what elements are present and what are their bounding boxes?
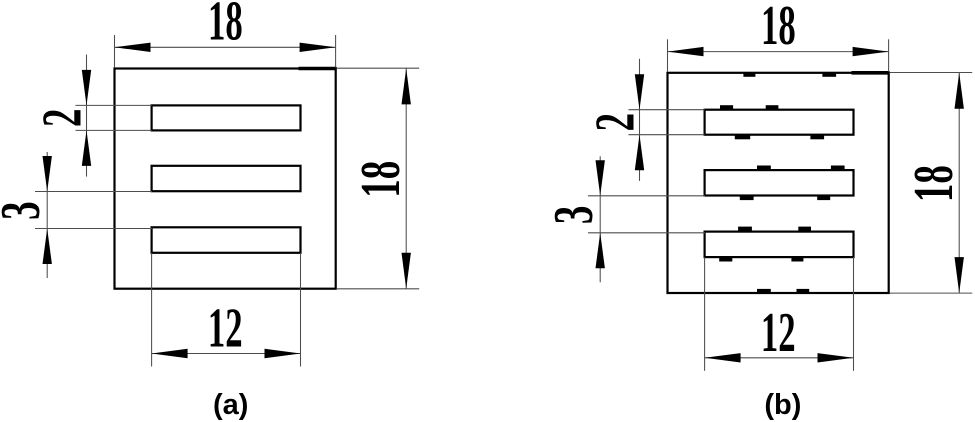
svg-text:12: 12 bbox=[208, 297, 243, 360]
svg-text:(a): (a) bbox=[213, 389, 248, 421]
svg-text:(b): (b) bbox=[764, 389, 801, 421]
svg-text:2: 2 bbox=[585, 113, 646, 131]
svg-text:12: 12 bbox=[761, 302, 796, 365]
svg-text:18: 18 bbox=[208, 0, 243, 53]
svg-text:18: 18 bbox=[351, 161, 412, 198]
svg-text:2: 2 bbox=[32, 109, 93, 127]
svg-text:3: 3 bbox=[0, 201, 52, 219]
svg-text:18: 18 bbox=[904, 165, 965, 202]
svg-text:18: 18 bbox=[761, 0, 796, 57]
svg-text:3: 3 bbox=[543, 206, 604, 224]
